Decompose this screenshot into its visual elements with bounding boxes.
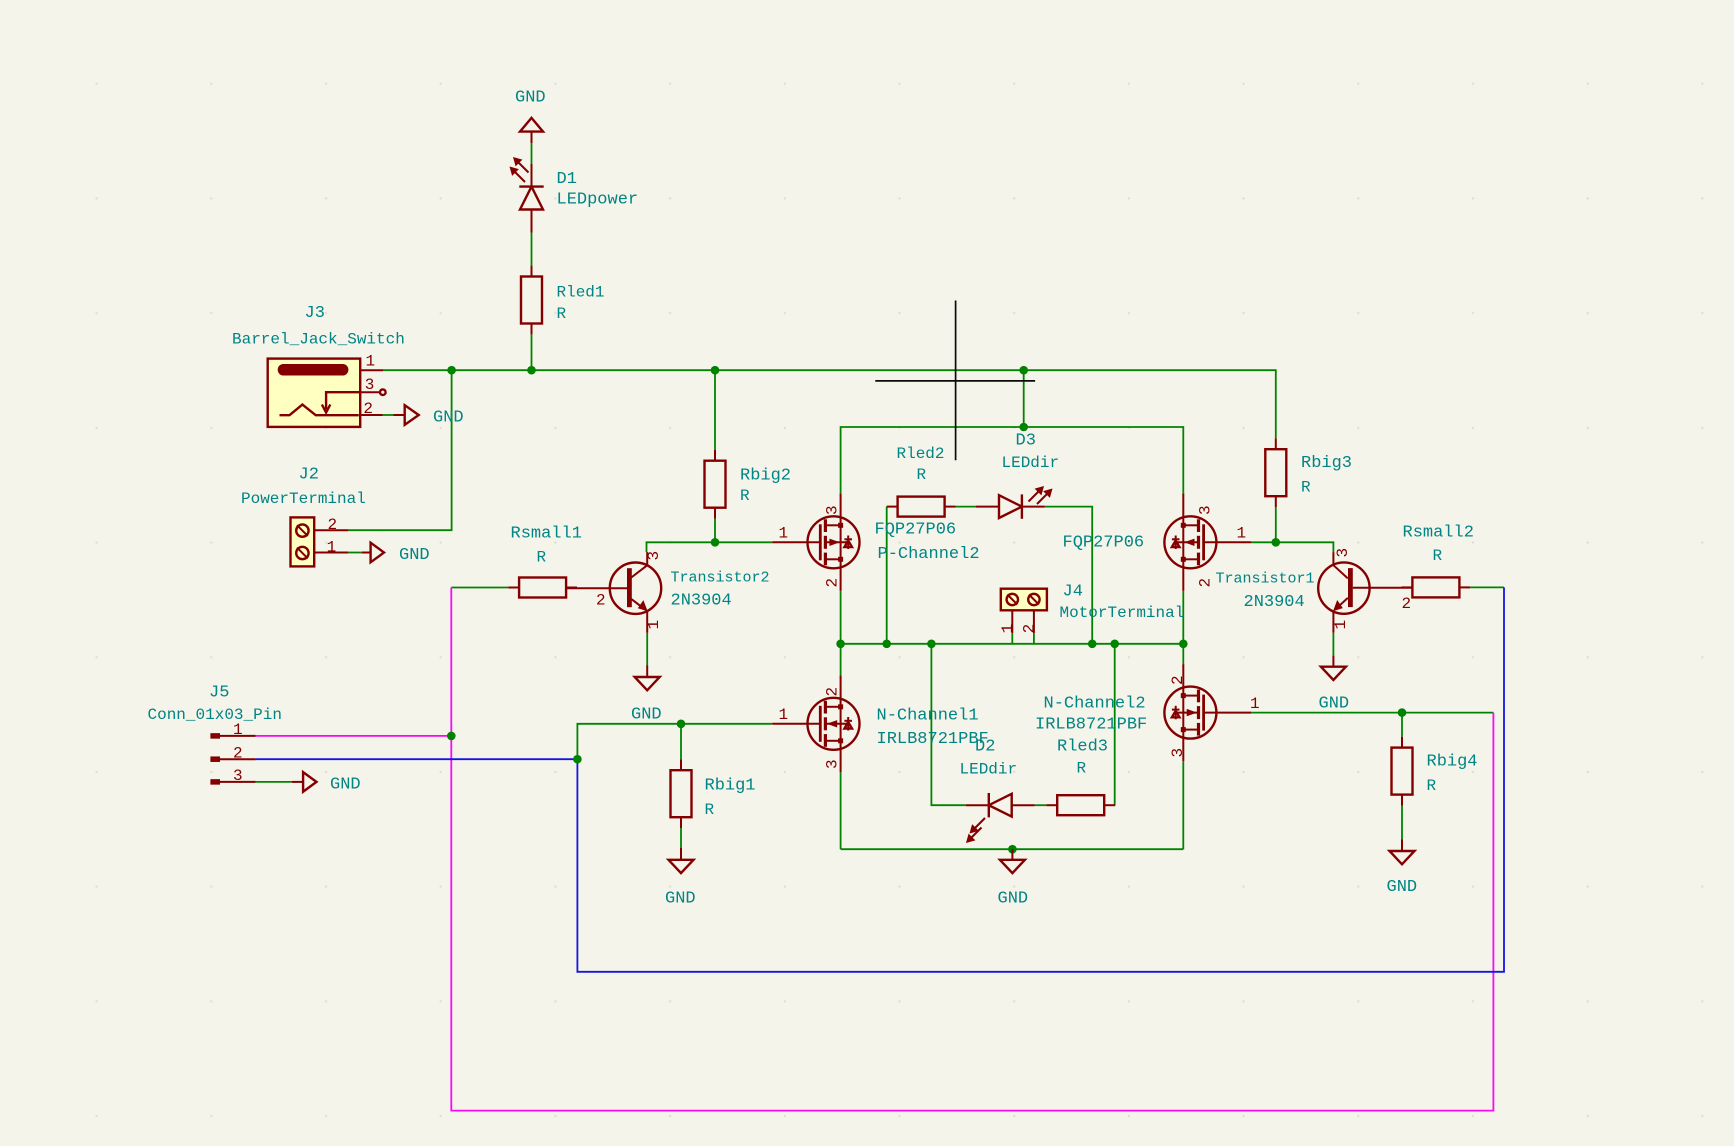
wire Rsmall1 left [451, 587, 508, 589]
wire J4 pin2 stub [1033, 633, 1035, 644]
mosfet N-Channel2 IRLB8721PBF (right bottom, mirrored) [1164, 664, 1251, 761]
wire GND top to D1 [531, 143, 533, 164]
svg-text:Conn_01x03_Pin: Conn_01x03_Pin [148, 706, 282, 724]
svg-text:3: 3 [365, 376, 375, 394]
wire H-bridge top line [841, 427, 1184, 495]
svg-text:P-Channel2: P-Channel2 [878, 545, 980, 564]
svg-text:N-Channel2: N-Channel2 [1044, 695, 1146, 714]
wire J5 pin3 to GND [256, 781, 292, 783]
svg-text:2: 2 [1197, 578, 1215, 588]
mosfet P-Channel2 FQP27P06 (left top) [772, 494, 859, 591]
wire Rbig1 top [680, 724, 682, 760]
wire PFET1 gate line [1251, 542, 1333, 552]
mosfet FQP27P06 (right top, mirrored) [1164, 494, 1251, 591]
junction rail-Rled1 [527, 366, 536, 375]
svg-text:2: 2 [596, 592, 606, 610]
svg-text:1: 1 [1332, 620, 1350, 630]
svg-text:R: R [537, 549, 547, 567]
junction Rbig2-gate [711, 538, 720, 547]
junction bus PFET2 source [836, 640, 845, 649]
wire Rbig4 top [1401, 713, 1403, 737]
svg-text:GND: GND [1319, 695, 1350, 714]
junction bus Rled2 [882, 640, 891, 649]
svg-text:J5: J5 [209, 684, 229, 703]
svg-text:N-Channel1: N-Channel1 [877, 707, 979, 726]
svg-text:R: R [557, 305, 567, 323]
resistor Rled2 [887, 497, 956, 517]
wire D2 to Rled3 [1035, 804, 1047, 806]
svg-text:LEDpower: LEDpower [557, 191, 639, 210]
svg-text:3: 3 [645, 551, 663, 561]
svg-text:R: R [917, 466, 927, 484]
ground GND under T1 [1321, 656, 1346, 680]
svg-text:Rbig4: Rbig4 [1427, 753, 1478, 772]
wire NFET1 gate net [577, 724, 772, 759]
wire NFET2 gate net [1251, 712, 1493, 714]
svg-text:2: 2 [824, 687, 842, 697]
svg-text:1: 1 [327, 539, 337, 557]
resistor Rled1 [521, 266, 542, 335]
junction NFET1 gate Rbig1 [677, 720, 686, 729]
svg-text:GND: GND [433, 409, 464, 428]
junction bus Rled3 branch [1110, 640, 1119, 649]
resistor Rsmall1 [508, 578, 577, 598]
wire NFET2 drain up [1182, 644, 1184, 664]
svg-text:GND: GND [998, 890, 1029, 909]
svg-text:3: 3 [1169, 748, 1187, 758]
wire bridge bottom line [841, 848, 1184, 850]
wire rail to Rbig2 [714, 370, 716, 450]
svg-text:3: 3 [1197, 505, 1215, 515]
svg-text:1: 1 [366, 353, 376, 371]
svg-text:D3: D3 [1016, 432, 1036, 451]
svg-text:1: 1 [1237, 525, 1247, 543]
wire J3 pin2 to GND [383, 414, 394, 416]
wire bridge top to rail [1023, 370, 1025, 427]
ground GND under Rbig4 [1390, 840, 1415, 865]
svg-text:R: R [740, 487, 750, 505]
junction rail-J2 [447, 366, 456, 375]
svg-text:Rled2: Rled2 [897, 445, 945, 463]
ground GND at J3 pin2 [393, 405, 419, 425]
svg-text:Transistor1: Transistor1 [1216, 571, 1315, 588]
ground GND at J2 pin1 [362, 543, 384, 563]
svg-text:R: R [1077, 760, 1087, 778]
wire J4 pin1 stub [1011, 633, 1013, 644]
resistor Rsmall2 [1402, 577, 1471, 597]
wire Rsmall2 right [1470, 586, 1504, 588]
power GND top (up) [520, 118, 543, 143]
junction rail-Rbig2 [711, 366, 720, 375]
wire Rbig2 to base node [714, 519, 716, 543]
junction blue J5.2 [573, 755, 582, 764]
svg-text:LEDdir: LEDdir [960, 761, 1018, 779]
svg-text:GND: GND [515, 89, 546, 108]
svg-text:Rbig1: Rbig1 [705, 777, 756, 796]
svg-text:Rsmall1: Rsmall1 [511, 525, 582, 544]
svg-text:Rbig3: Rbig3 [1301, 454, 1352, 473]
resistor Rbig1 [671, 759, 692, 828]
wire blue J5 pin2 [256, 758, 578, 760]
svg-text:GND: GND [1387, 878, 1418, 897]
svg-text:2N3904: 2N3904 [671, 592, 732, 611]
svg-text:3: 3 [824, 505, 842, 515]
junction bus D3 branch [1088, 640, 1097, 649]
svg-text:R: R [1427, 777, 1437, 795]
svg-text:R: R [705, 801, 715, 819]
svg-text:R: R [1301, 479, 1311, 497]
svg-text:2: 2 [824, 578, 842, 588]
wire T2 collector to PFET2 gate [647, 542, 773, 552]
svg-text:1: 1 [779, 525, 789, 543]
resistor Rbig4 [1392, 737, 1413, 806]
svg-text:FQP27P06: FQP27P06 [1063, 534, 1145, 553]
svg-text:1: 1 [1250, 695, 1260, 713]
resistor Rbig3 [1265, 438, 1286, 507]
svg-text:J3: J3 [305, 304, 325, 323]
junction bus D2 branch [927, 640, 936, 649]
svg-text:Barrel_Jack_Switch: Barrel_Jack_Switch [232, 331, 405, 349]
crosshair cursor [955, 301, 957, 461]
ground GND under Rbig1 [669, 848, 694, 873]
svg-text:IRLB8721PBF: IRLB8721PBF [877, 730, 989, 749]
svg-text:D1: D1 [557, 170, 577, 189]
resistor Rbig2 [705, 450, 726, 519]
svg-text:1: 1 [999, 624, 1017, 634]
transistor Transistor2 2N3904 (NPN) [567, 552, 661, 633]
svg-text:1: 1 [779, 706, 789, 724]
wire T2 emitter [646, 633, 648, 666]
wire J2 pin1 to GND [348, 552, 361, 554]
svg-text:FQP27P06: FQP27P06 [875, 521, 957, 540]
connector J2 PowerTerminal [291, 517, 349, 566]
svg-text:2: 2 [363, 400, 373, 418]
svg-text:J4: J4 [1063, 583, 1083, 602]
svg-text:Rled3: Rled3 [1057, 738, 1108, 757]
junction bridge top [1019, 423, 1028, 432]
LED D1 LEDpower (up) [510, 157, 544, 233]
wire NFET2 source down [1182, 761, 1184, 849]
mosfet N-Channel1 IRLB8721PBF (left bottom) [772, 675, 859, 772]
connector J5 Conn_01x03_Pin [210, 736, 255, 782]
LED D2 LEDdir (left) [966, 793, 1035, 843]
svg-text:Transistor2: Transistor2 [671, 570, 770, 587]
svg-text:2: 2 [1169, 675, 1187, 685]
svg-text:3: 3 [233, 767, 243, 785]
svg-text:GND: GND [631, 706, 662, 725]
wire T1 emitter [1332, 633, 1334, 656]
svg-text:2: 2 [233, 744, 243, 762]
wire Rled2 to D3 [956, 506, 977, 508]
wire blue vertical loop [577, 587, 1504, 971]
svg-text:J2: J2 [299, 466, 319, 485]
svg-text:GND: GND [665, 890, 696, 909]
resistor Rled3 [1046, 795, 1115, 815]
wire Rled1 to rail [531, 334, 533, 370]
wire VCC rail [383, 370, 1276, 438]
svg-text:3: 3 [824, 759, 842, 769]
junction Rbig3-gate [1272, 538, 1281, 547]
wire D2 loop left [931, 644, 966, 805]
junction NFET2 gate Rbig4 [1398, 708, 1407, 717]
junction bus NFET2 drain [1179, 640, 1188, 649]
svg-text:Rsmall2: Rsmall2 [1403, 524, 1474, 543]
svg-text:2: 2 [328, 516, 338, 534]
svg-text:LEDdir: LEDdir [1002, 454, 1060, 472]
wire Rbig1 bottom [680, 828, 682, 848]
svg-text:2: 2 [1402, 595, 1412, 613]
svg-text:MotorTerminal: MotorTerminal [1060, 604, 1185, 622]
LED D3 LEDdir (right) [976, 486, 1053, 519]
wire magenta J5 pin1 [256, 735, 452, 737]
ground GND under T2 [635, 666, 660, 691]
connector J4 MotorTerminal [1001, 589, 1047, 634]
junction rail-bridge [1019, 366, 1028, 375]
wire Rled3 loop right [1114, 644, 1116, 805]
wire magenta vertical loop [451, 588, 1493, 1111]
svg-text:3: 3 [1334, 548, 1352, 558]
svg-text:2: 2 [1020, 624, 1038, 634]
svg-text:1: 1 [645, 620, 663, 630]
ground GND at J5 pin3 [292, 772, 317, 792]
ground GND bridge bottom [1000, 849, 1025, 873]
wire Rled2 left drop [886, 507, 888, 644]
svg-text:GND: GND [399, 546, 430, 565]
wire PFET2 source down [840, 591, 842, 644]
wire Rbig3 to T1 collector node [1275, 507, 1277, 542]
svg-text:IRLB8721PBF: IRLB8721PBF [1035, 716, 1147, 735]
svg-text:Rbig2: Rbig2 [740, 467, 791, 486]
svg-text:R: R [1433, 547, 1443, 565]
transistor Transistor1 2N3904 (NPN mirrored) [1318, 552, 1412, 633]
wire rail to J2 pin2 [348, 370, 451, 530]
wire NFET1 source down [840, 772, 842, 849]
wire D1 to Rled1 [531, 233, 533, 266]
wire motor bus [841, 643, 1184, 645]
junction magenta J5.1 [447, 732, 456, 741]
svg-text:Rled1: Rled1 [557, 284, 605, 302]
svg-text:GND: GND [330, 776, 361, 795]
svg-text:2N3904: 2N3904 [1244, 593, 1305, 612]
junction bottom GND [1008, 845, 1017, 854]
connector J3 Barrel_Jack_Switch [268, 359, 386, 427]
wire NFET1 drain up [840, 644, 842, 676]
wire PFET1 source down [1182, 591, 1184, 644]
wire D3 right drop [1045, 507, 1092, 644]
svg-text:PowerTerminal: PowerTerminal [241, 490, 366, 508]
wire Rbig4 bottom [1401, 806, 1403, 840]
